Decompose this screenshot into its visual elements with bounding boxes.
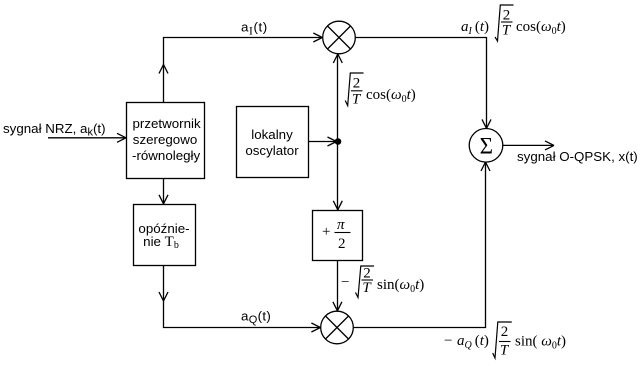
box: lokalny oscylator (local oscillator) <box>237 107 309 178</box>
svg-text:−: − <box>341 275 349 291</box>
svg-text:nie Tb: nie Tb <box>143 234 179 251</box>
svg-text:przetwornik: przetwornik <box>133 116 201 131</box>
math label: sqrt(2/T) cos(w0 t) (oscillator upper output) <box>345 73 416 108</box>
svg-text:+: + <box>322 224 330 240</box>
svg-text:2: 2 <box>503 8 511 24</box>
svg-text:cos(ω0t): cos(ω0t) <box>516 19 566 37</box>
math label: - aQ(t) sqrt(2/T) sin(w0 t) (bottom right) <box>444 322 566 359</box>
wire: junction down to pi/2 box top <box>337 142 339 211</box>
radical <box>495 5 514 41</box>
svg-text:lokalny: lokalny <box>251 127 293 142</box>
box: przetwornik szeregowo-rownolegly (serial-to-parallel converter) <box>127 103 205 179</box>
arrowhead into M1 bottom <box>333 54 342 63</box>
text in pi/2 box: + pi over 2 <box>322 217 351 252</box>
svg-text:oscylator: oscylator <box>245 143 299 158</box>
arrowhead into M2 left <box>311 323 320 332</box>
svg-text:sin( ω0t): sin( ω0t) <box>515 334 566 352</box>
svg-text:aI (t): aI (t) <box>461 19 489 37</box>
arrowhead into summer top <box>482 119 491 128</box>
arrowhead into M2 top <box>333 302 342 311</box>
wire: M1 output right then down to summer top <box>355 38 486 129</box>
arrowhead mid vertical pointing down <box>159 292 168 301</box>
multiplier M1 (top mixer circle with X) <box>323 21 356 54</box>
radical <box>493 322 512 358</box>
multiplier M2 (bottom mixer circle with X) <box>321 311 354 344</box>
wire: M2 output right then up to summer bottom <box>353 163 485 328</box>
svg-text:aQ (t): aQ (t) <box>457 333 489 351</box>
wire: NRZ input arrow <box>48 137 125 139</box>
math label: aI(t) sqrt(2/T) cos(w0 t) (top right) <box>461 5 566 41</box>
junction node dot <box>335 138 342 145</box>
svg-text:2: 2 <box>338 236 346 252</box>
svg-text:cos(ω0t): cos(ω0t) <box>366 87 416 105</box>
wire: converter bottom to delay box top <box>163 179 165 205</box>
svg-text:sygnał O-QPSK, x(t): sygnał O-QPSK, x(t) <box>517 149 638 164</box>
wire: summer output arrow <box>503 144 553 146</box>
summer U1 (sigma adder circle) <box>469 129 503 163</box>
wire: oscillator output to junction <box>309 141 337 143</box>
svg-text:Σ: Σ <box>480 133 493 158</box>
svg-text:szeregowo: szeregowo <box>133 132 197 147</box>
svg-text:sin(ω0t): sin(ω0t) <box>377 277 424 295</box>
box: +pi/2 phase shifter <box>313 211 363 261</box>
arrowhead into M1 left <box>313 33 322 42</box>
arrowhead before junction <box>328 137 337 146</box>
svg-text:−: − <box>444 333 452 349</box>
arrowhead into pi/2 box <box>333 201 342 210</box>
svg-text:π: π <box>337 217 345 233</box>
svg-text:2: 2 <box>501 324 509 340</box>
math label: - sqrt(2/T) sin(w0 t) (oscillator lower output) <box>341 266 424 298</box>
box: opoznienie Tb (delay) <box>134 205 196 266</box>
wire: delay bottom down, corner, right to M2 <box>164 266 321 328</box>
svg-text:2: 2 <box>353 76 361 92</box>
wire: converter top output up to corner then right to M1 <box>164 38 322 103</box>
wire: junction up to M1 bottom <box>337 55 339 142</box>
arrowhead into delay box <box>159 195 168 204</box>
arrowhead into summer bottom <box>481 162 490 171</box>
wire: pi/2 box bottom down to M2 top <box>337 261 339 311</box>
svg-text:-równoległy: -równoległy <box>132 148 200 163</box>
arrowhead mid vertical pointing up <box>159 65 168 74</box>
